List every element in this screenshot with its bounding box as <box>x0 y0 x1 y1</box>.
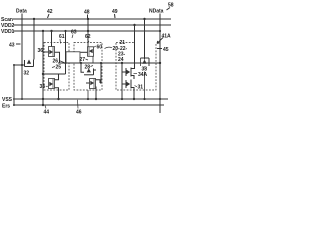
label 41A <box>162 34 172 40</box>
wire leader 33 <box>46 85 48 87</box>
node junction dot 134-VSS <box>133 98 135 100</box>
node junction dot Q20-Scan <box>87 18 89 20</box>
svg-text:60: 60 <box>97 45 103 51</box>
label 33 <box>40 84 46 90</box>
svg-text:43: 43 <box>9 43 15 49</box>
wire net27 drop <box>81 63 84 72</box>
node junction dot VDD1-43 <box>42 30 44 32</box>
node junction dot x144-Scan <box>143 18 145 20</box>
svg-text:63: 63 <box>71 30 77 36</box>
node NData label <box>149 9 164 15</box>
node junction dot scan tap <box>33 18 35 20</box>
label 48 <box>84 10 90 16</box>
transistor Q38 <box>141 58 150 66</box>
label 22 <box>120 46 128 52</box>
wire VDD2 rail <box>13 24 171 26</box>
svg-text:VDD1: VDD1 <box>1 29 15 35</box>
node junction dot x14-Ers <box>13 104 15 106</box>
wire x122 vertical <box>121 63 123 99</box>
wire leader 43 <box>16 43 21 45</box>
label 20 <box>113 46 121 52</box>
label 21 <box>120 40 126 46</box>
label 34A <box>138 72 148 78</box>
node junction dot Data bottom <box>21 64 23 66</box>
wire Ers rail <box>13 104 164 106</box>
node Scan label <box>1 17 13 23</box>
node VDD2 label <box>1 23 15 29</box>
node VSS label <box>2 97 13 103</box>
transistor Q22 (box 46 middle) <box>84 69 96 75</box>
node junction dot x134-VDD2 <box>133 24 135 26</box>
wire Q38 bottom to VSS <box>144 66 146 99</box>
wire leader 49 <box>114 14 117 18</box>
wire net27 right drop <box>100 63 101 83</box>
wire VSS rail <box>13 98 168 100</box>
node junction dot Data-VSS <box>21 98 23 100</box>
wire Q22 gate down <box>87 87 89 99</box>
svg-text:58: 58 <box>168 3 174 9</box>
wire y74 horizontal <box>43 73 66 75</box>
wire 88 drop <box>87 90 89 99</box>
wire leader 26 <box>59 61 64 63</box>
transistor Q32 <box>22 60 34 100</box>
label 44 <box>44 110 50 116</box>
svg-text:27: 27 <box>80 57 86 63</box>
node junction dot net25-26 <box>64 62 66 64</box>
wire 43 vertical <box>42 31 44 105</box>
node junction dot gate feed <box>13 64 15 66</box>
wire gate feed left L <box>14 65 25 105</box>
wire leader 62 <box>88 39 90 42</box>
node VDD1 label <box>1 29 15 35</box>
wire leader 20 <box>105 47 113 48</box>
wire leader 60 <box>94 46 96 47</box>
wire Q20 top lead <box>87 19 89 47</box>
wire net25 vertical <box>65 31 67 74</box>
label 49 <box>112 9 118 15</box>
transistor Q34A <box>122 63 135 79</box>
node junction dot 43-74 <box>42 73 44 75</box>
label 58 <box>168 3 174 9</box>
wire leader 41A arrow <box>157 38 163 44</box>
label 28 <box>85 65 91 71</box>
wire leader 58 <box>167 8 171 11</box>
wire leader 42 <box>48 14 50 18</box>
svg-text:44: 44 <box>44 110 50 116</box>
wire x134 from VDD2 <box>134 25 136 63</box>
node junction dot net25 top <box>64 30 66 32</box>
label 46 <box>76 110 82 116</box>
wire x144 from Scan <box>144 19 146 60</box>
node junction dot NData-VDD1 <box>159 30 161 32</box>
label 32 <box>24 71 30 77</box>
svg-text:41A: 41A <box>162 34 172 40</box>
wire leader 31 <box>135 86 138 87</box>
svg-text:36: 36 <box>38 48 44 54</box>
wire leader 48 arrow <box>87 15 89 19</box>
node junction dot Q36-VDD1 <box>50 30 52 32</box>
transistor Q33 <box>49 74 59 99</box>
wire scan tap vertical <box>33 19 35 60</box>
svg-text:32: 32 <box>24 71 30 77</box>
node junction dot VSS-43 <box>42 98 44 100</box>
wire leader 61 <box>59 39 62 44</box>
wire net26 horizontal <box>58 62 160 64</box>
svg-text:VSS: VSS <box>2 97 13 103</box>
capacitor 63 box <box>66 52 80 63</box>
label 27 <box>80 57 86 63</box>
wire leader 46 <box>77 100 80 109</box>
wire leader 45 <box>157 48 162 50</box>
svg-text:46: 46 <box>76 110 82 116</box>
wire leader 44 <box>45 106 46 109</box>
svg-text:34A: 34A <box>138 72 148 78</box>
transistor Q24 (box 46 bottom) <box>86 79 100 89</box>
label 60 <box>97 45 103 51</box>
node junction dot Q33-VSS <box>57 98 59 100</box>
node junction dot Q20-VDD1 <box>87 30 89 32</box>
node junction dot Q24-VSS <box>95 98 97 100</box>
wire NData vertical <box>159 14 161 114</box>
label 31 <box>138 85 144 91</box>
wire leader 27 <box>86 59 89 60</box>
label 25 <box>56 65 62 71</box>
node Data label <box>16 9 27 15</box>
svg-text:48: 48 <box>84 10 90 16</box>
svg-text:45: 45 <box>163 47 169 53</box>
wire leader 63 <box>72 35 73 39</box>
transistor Q20 (box 46 top) <box>81 47 94 63</box>
node junction dot net26 left <box>80 62 82 64</box>
wire leader 34A <box>134 73 138 75</box>
node Ers label <box>2 104 10 110</box>
node junction dot Ers-43 <box>42 104 44 106</box>
wire VDD1 rail <box>13 30 160 32</box>
svg-text:33: 33 <box>40 84 46 90</box>
label 23 <box>118 52 126 58</box>
svg-text:31: 31 <box>138 85 144 91</box>
svg-text:25: 25 <box>56 65 62 71</box>
wire Q36 top lead <box>51 31 53 47</box>
label 43 <box>9 43 15 49</box>
svg-text:42: 42 <box>47 9 53 15</box>
node junction dot NData-VSS <box>159 98 161 100</box>
transistor Q36 <box>43 47 60 64</box>
label 61 <box>59 34 65 40</box>
label 24 <box>118 57 124 63</box>
label 62 <box>85 34 91 40</box>
node junction dot 88-VSS <box>87 98 89 100</box>
label 45 <box>163 47 169 53</box>
node junction dot net26 right <box>100 62 102 64</box>
wire Q24 to VSS <box>95 87 97 100</box>
svg-text:24: 24 <box>118 57 124 63</box>
dashed box 45 <box>116 42 134 44</box>
node junction dot 143-VSS <box>143 98 145 100</box>
node junction dot net26-x122 <box>121 62 123 64</box>
label 26 <box>53 59 59 65</box>
svg-text:Ers: Ers <box>2 104 10 110</box>
node junction dot x122-VSS <box>121 98 123 100</box>
label 36 <box>38 48 44 54</box>
dashed box 44 <box>44 43 69 91</box>
label 38 <box>142 67 148 73</box>
wire Data vertical <box>21 14 23 66</box>
svg-text:NData: NData <box>149 9 164 15</box>
wire Scan rail <box>13 18 171 20</box>
transistor Q31 <box>122 79 134 99</box>
wire leader 28 <box>91 66 94 67</box>
node junction dot Q38-NData <box>159 62 161 64</box>
dashed box 46 <box>74 43 102 91</box>
label 42 <box>47 9 53 15</box>
wire leader 25 <box>52 67 55 68</box>
label 63 <box>71 30 77 36</box>
